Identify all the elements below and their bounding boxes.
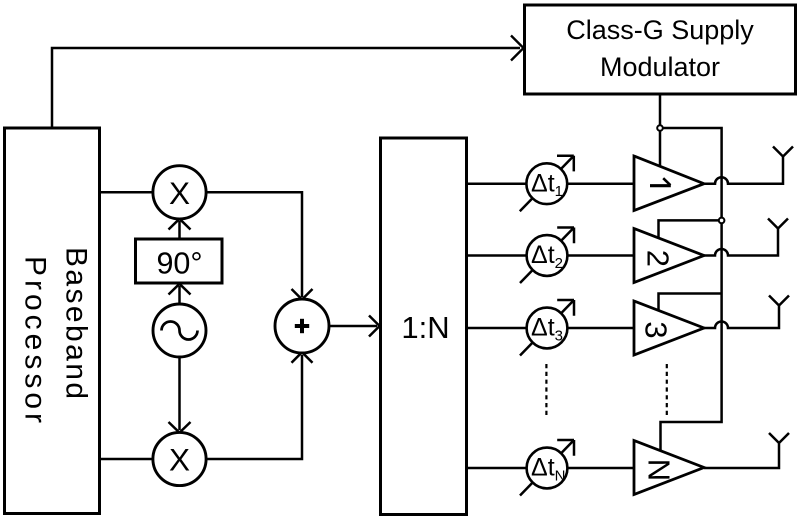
svg-text:Class-G Supply: Class-G Supply [566, 15, 754, 45]
svg-text:N: N [642, 459, 677, 481]
svg-text:X: X [169, 442, 190, 478]
svg-text:3: 3 [639, 321, 674, 338]
svg-text:Modulator: Modulator [600, 52, 720, 82]
svg-text:1:N: 1:N [401, 310, 449, 345]
svg-text:X: X [169, 175, 190, 211]
svg-text:Processor: Processor [19, 256, 52, 423]
svg-text:2: 2 [641, 250, 676, 267]
svg-text:90°: 90° [156, 247, 202, 281]
